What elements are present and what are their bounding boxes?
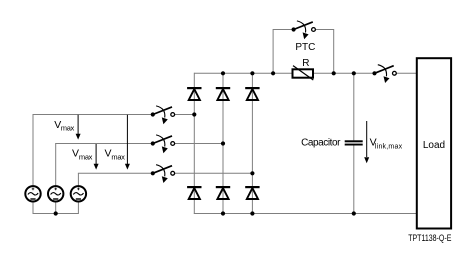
switch S1 phase 1 — [151, 106, 175, 124]
wire phase 1 from source G1 up to switch S1 — [32, 115, 34, 195]
junction node leg3 top rail — [250, 71, 254, 75]
wire top rail from load switch S5 to load — [396, 72, 417, 74]
junction neutral node — [54, 211, 58, 215]
wire phase 2 from source G2 up to switch S2 — [55, 144, 57, 195]
wire positive top rail — [194, 72, 374, 74]
switch S2 phase 2 — [151, 135, 175, 153]
svg-text:PTC: PTC — [295, 42, 315, 53]
load block — [417, 58, 451, 228]
wire capacitor branch lower — [353, 145, 355, 213]
label Vmax 1 — [54, 119, 74, 133]
svg-text:TPT1138-Q-E: TPT1138-Q-E — [408, 233, 451, 243]
svg-text:Load: Load — [423, 140, 445, 151]
wire negative bottom rail — [194, 213, 417, 215]
switch S5 load disconnect — [372, 65, 396, 83]
arrow Vmax 3 — [125, 115, 130, 170]
wire PTC bypass loop switch S4 to right side down — [315, 30, 333, 74]
svg-text:max: max — [61, 124, 75, 133]
switch S3 phase 3 — [151, 165, 175, 183]
junction node phase2 leg2 — [221, 141, 225, 145]
diode D2 upper leg 2 — [216, 88, 230, 100]
diode D1 upper leg 1 — [187, 88, 201, 100]
arrow Vmax 2 — [94, 144, 99, 170]
arrow Vlink,max — [364, 121, 369, 163]
junction node capacitor top rail — [352, 71, 356, 75]
voltage source G2 — [48, 186, 63, 201]
svg-text:link,max: link,max — [375, 144, 403, 151]
svg-text:max: max — [111, 152, 125, 161]
resistor R — [293, 66, 314, 80]
label Vmax 2 — [72, 148, 93, 162]
junction node bypass left on top rail — [271, 71, 275, 75]
switch S4 PTC bypass — [292, 21, 316, 39]
label Vlink,max — [370, 137, 403, 151]
arrow Vmax 1 — [76, 115, 81, 140]
diode D6 lower leg 3 — [245, 187, 259, 199]
svg-text:R: R — [302, 58, 309, 69]
wire bridge leg 2 — [222, 73, 224, 214]
junction node phase1 leg1 — [192, 112, 196, 116]
wire phase 2 switch S2 to bridge leg 2 — [175, 143, 223, 145]
svg-text:Capacitor: Capacitor — [301, 138, 341, 149]
label Vmax 3 — [105, 148, 126, 162]
wire phase 1 switch S1 to bridge leg 1 — [175, 114, 195, 116]
capacitor C1 — [345, 140, 363, 145]
junction node bypass right on top rail — [332, 71, 336, 75]
wire phase 3 from source G3 up to switch S3 — [77, 173, 79, 194]
junction node capacitor bottom rail — [352, 211, 356, 215]
junction node leg3 bottom rail — [250, 211, 254, 215]
junction node leg2 bottom rail — [221, 211, 225, 215]
diode D3 upper leg 3 — [245, 88, 259, 100]
wire bridge leg 3 — [251, 73, 253, 214]
diode D4 lower leg 1 — [187, 187, 201, 199]
junction node phase3 leg3 — [250, 171, 254, 175]
voltage source G3 — [71, 186, 86, 201]
svg-text:max: max — [79, 152, 93, 161]
voltage source G1 — [25, 186, 40, 201]
wire bridge leg 1 — [193, 73, 195, 214]
junction node leg2 top rail — [221, 71, 225, 75]
wire neutral joining sources G1 G2 G3 — [33, 194, 78, 214]
wire capacitor branch upper — [353, 73, 355, 140]
wire phase 3 switch S3 to bridge leg 3 — [175, 172, 253, 174]
diode D5 lower leg 2 — [216, 187, 230, 199]
wire PTC bypass loop left and top to switch S4 — [273, 30, 294, 74]
